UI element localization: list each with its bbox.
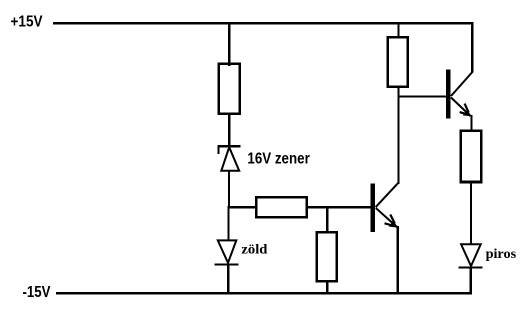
wire R3 to -15V rail bbox=[326, 282, 328, 295]
wire node A to green LED bbox=[227, 207, 229, 241]
wire Q2 emitter to R5 bbox=[470, 115, 472, 131]
svg-text:16V zener: 16V zener bbox=[247, 151, 309, 168]
transistor Q1 emitter arrow stroke 2 bbox=[385, 223, 393, 225]
zener diode D1 cathode hook bbox=[217, 147, 219, 155]
svg-text:zöld: zöld bbox=[241, 243, 267, 258]
green LED D2 triangle bbox=[218, 240, 237, 263]
zener diode D1 cathode bar bbox=[218, 145, 241, 147]
svg-text:-15V: -15V bbox=[23, 284, 51, 301]
transistor Q2 emitter arrow stroke 2 bbox=[460, 112, 467, 114]
transistor Q2 emitter diagonal bbox=[451, 98, 471, 117]
node B wire down to R3 bbox=[326, 207, 328, 233]
resistor R1 bbox=[219, 64, 240, 114]
red LED D3 cathode bar bbox=[459, 267, 483, 269]
wire node A to R2 bbox=[227, 206, 257, 208]
wire Q1 emitter to -15V rail bbox=[397, 226, 399, 294]
resistor R2 bbox=[256, 197, 307, 217]
wire R2 to Q1 base bbox=[307, 206, 372, 208]
transistor Q2 emitter arrow stroke 1 bbox=[465, 104, 469, 113]
wire red LED to -15V rail bbox=[470, 268, 472, 294]
transistor Q1 emitter arrowhead bbox=[389, 221, 398, 228]
green LED D2 cathode bar bbox=[214, 263, 238, 265]
transistor Q2 collector diagonal bbox=[451, 72, 473, 97]
resistor R3 bbox=[317, 232, 337, 281]
svg-text:piros: piros bbox=[486, 247, 517, 262]
wire green LED to -15V rail bbox=[227, 265, 229, 295]
transistor Q1 collector diagonal bbox=[376, 183, 399, 207]
transistor Q1 base bar bbox=[370, 184, 375, 232]
resistor R4 bbox=[388, 37, 408, 86]
wire +15V rail to R1 bbox=[228, 22, 230, 66]
zener diode D1 triangle bbox=[221, 147, 239, 171]
svg-text:+15V: +15V bbox=[11, 14, 43, 31]
wire Q2 collector to +15V rail bbox=[471, 22, 473, 72]
red LED D3 triangle bbox=[461, 244, 481, 266]
transistor Q1 emitter diagonal bbox=[376, 208, 397, 227]
+15V rail wire bbox=[53, 22, 473, 24]
transistor Q2 base bar bbox=[446, 70, 451, 119]
wire R5 to red LED bbox=[470, 182, 472, 245]
wire Q1 collector to R4 bottom bbox=[397, 87, 399, 184]
resistor R5 bbox=[461, 131, 482, 182]
wire R1 to zener bbox=[228, 113, 230, 147]
wire +15V rail to R4 bbox=[398, 22, 400, 38]
transistor Q2 emitter arrowhead bbox=[463, 110, 472, 117]
-15V rail wire bbox=[56, 292, 472, 294]
wire zener to node A bbox=[228, 171, 230, 209]
transistor Q1 emitter arrow stroke 1 bbox=[390, 215, 395, 224]
wire junction to Q2 base bbox=[397, 95, 446, 97]
